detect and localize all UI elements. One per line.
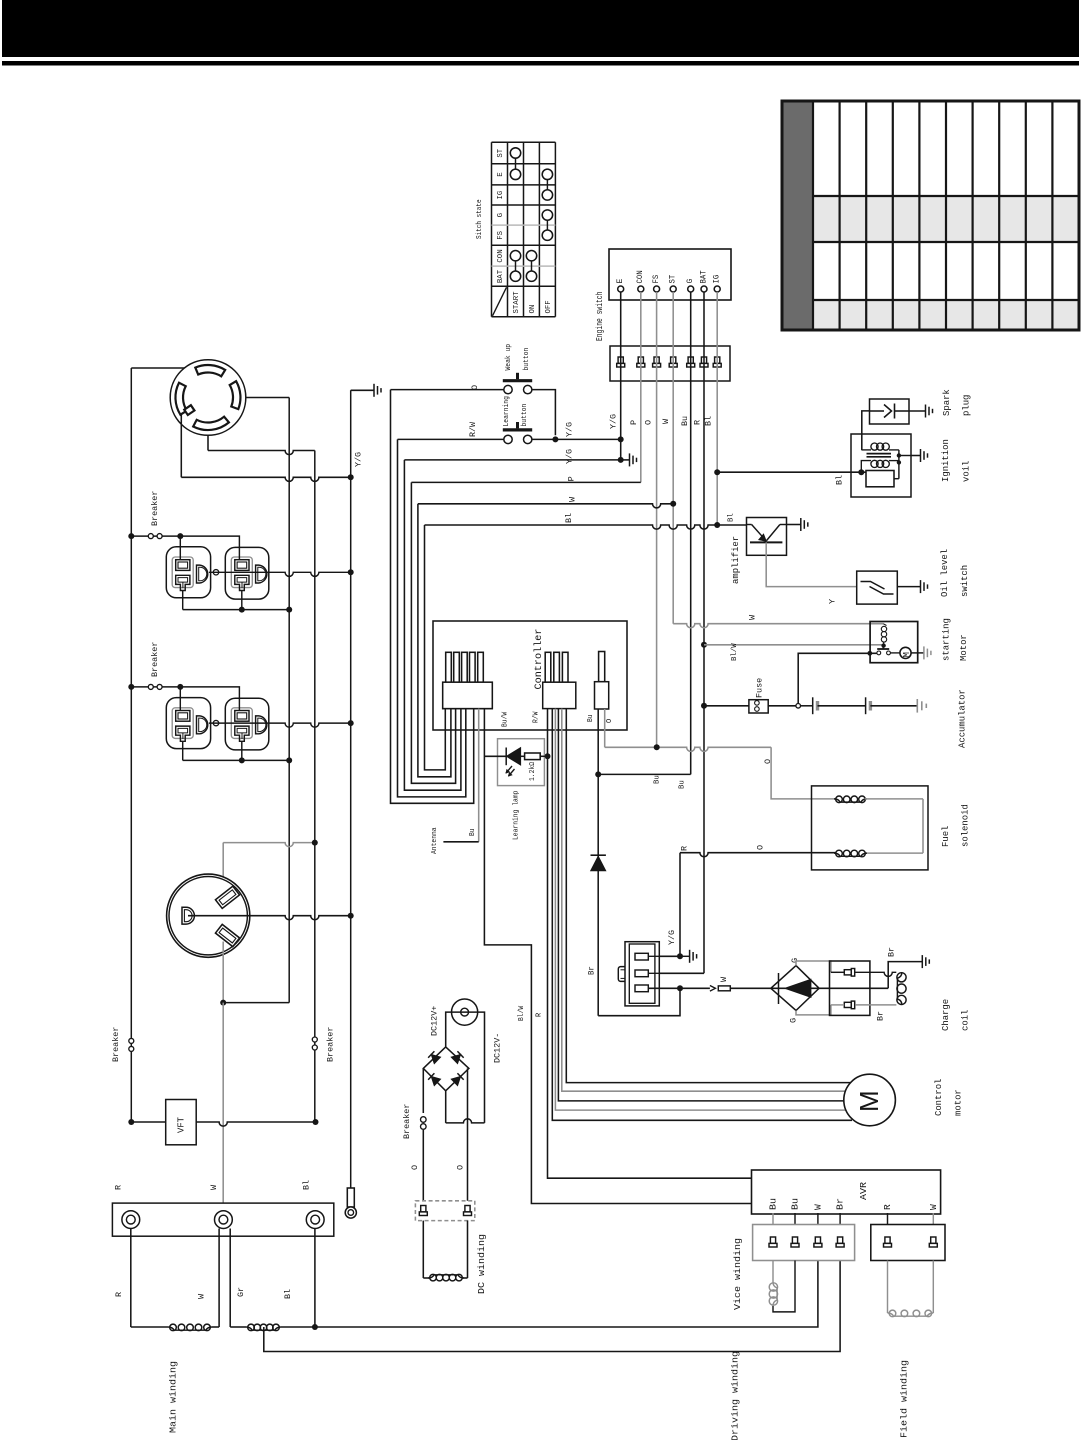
wire control motor lead 4	[562, 709, 852, 1092]
svg-text:FS: FS	[497, 231, 505, 240]
table contact START: ST-E	[510, 148, 520, 158]
wire controller loop 3	[404, 460, 461, 790]
svg-text:Bl: Bl	[302, 1180, 312, 1190]
twist-lock slot bottom	[193, 417, 229, 430]
engine switch terminal ST	[670, 286, 676, 292]
svg-text:START: START	[513, 291, 521, 313]
svg-text:O: O	[470, 385, 480, 390]
svg-text:BAT: BAT	[699, 270, 708, 283]
wire bridge minus link	[445, 1091, 447, 1123]
wire Y/G pin1 ground	[679, 853, 681, 957]
connector pin BAT	[701, 357, 706, 363]
wire G bottom to connector	[796, 1005, 831, 1015]
wire Y/G ground line to nest	[404, 459, 620, 461]
junction E ground	[618, 457, 624, 463]
wire W line to nest	[418, 504, 673, 508]
bridge diode bottom-left	[428, 1073, 440, 1085]
svg-text:solenoid: solenoid	[961, 804, 971, 847]
fuel solenoid coil upper	[834, 799, 867, 802]
wire G top to connector	[796, 961, 831, 972]
duplex outlet body	[166, 547, 210, 598]
main winding L1	[131, 1326, 168, 1328]
svg-text:button: button	[523, 348, 531, 371]
wire Bu controller to diode	[597, 709, 599, 1016]
wire R bus left	[130, 368, 132, 1122]
svg-text:P: P	[629, 420, 639, 425]
learning button	[503, 428, 532, 431]
wire controller loop 1	[391, 390, 474, 804]
svg-text:OFF: OFF	[545, 300, 553, 313]
svg-text:Y: Y	[827, 599, 837, 604]
receptacle face	[172, 708, 193, 739]
ignition coil primary block	[866, 471, 894, 487]
connector pin G	[688, 357, 693, 363]
wire controller loop 2	[398, 439, 466, 797]
wire control motor lead 1	[552, 709, 852, 1121]
controller connector J1	[443, 682, 493, 708]
oil level switch contact	[861, 582, 885, 590]
engine switch terminal BAT	[701, 286, 707, 292]
revision table	[813, 196, 1079, 242]
learning lamp box	[498, 739, 545, 786]
30A slot top	[215, 886, 239, 908]
svg-text:R: R	[882, 1204, 893, 1210]
ring terminal	[306, 1211, 324, 1229]
fuel solenoid coil lower	[865, 852, 923, 854]
connector pin	[838, 1237, 843, 1243]
receptacle face	[231, 557, 252, 588]
accumulator battery	[801, 705, 813, 707]
wire Br to ground	[888, 962, 922, 989]
duplex ground wire	[209, 572, 351, 576]
table contact ON: CON-BAT	[526, 251, 536, 261]
svg-text:Y/G: Y/G	[565, 449, 575, 464]
svg-text:plug: plug	[961, 395, 971, 416]
wire Bl bus from bottom slot	[314, 451, 316, 1123]
wire W to main winding	[218, 1229, 220, 1328]
svg-text:Br: Br	[876, 1011, 886, 1021]
svg-text:O: O	[606, 719, 614, 723]
junction R fuse	[701, 703, 707, 709]
30A ground wire to Y/G bus	[188, 916, 351, 920]
charge rectifier diamond	[771, 966, 819, 1011]
svg-text:Y/G: Y/G	[565, 422, 575, 437]
controller U1 box	[433, 621, 627, 730]
svg-text:AVR: AVR	[858, 1182, 869, 1200]
wire bridge AC right	[467, 1068, 469, 1200]
svg-text:R: R	[114, 1292, 124, 1297]
svg-text:Control: Control	[934, 1079, 944, 1116]
junction Bu wire	[595, 771, 601, 777]
wire R-O to fuel solenoid lower	[680, 853, 836, 857]
svg-text:Bu: Bu	[653, 775, 661, 784]
ring terminal	[215, 1211, 233, 1229]
svg-text:Learning lamp: Learning lamp	[513, 791, 521, 840]
svg-text:R: R	[692, 420, 702, 425]
engine switch connector	[610, 346, 730, 381]
fuse F1	[704, 705, 749, 707]
svg-text:starting: starting	[942, 618, 952, 661]
vice winding connector	[753, 1225, 855, 1261]
connector pin	[770, 1237, 775, 1243]
table contact OFF: E-IG	[542, 169, 552, 179]
svg-text:Oil level: Oil level	[940, 549, 950, 597]
twist-lock slot left	[175, 383, 186, 415]
svg-text:Breaker: Breaker	[326, 1027, 336, 1062]
breaker CB3	[129, 1038, 134, 1043]
wire twist-lock right slot	[246, 397, 289, 399]
learning lamp LED	[505, 748, 507, 766]
svg-text:Bu: Bu	[587, 714, 595, 722]
svg-text:Bu: Bu	[790, 1198, 801, 1210]
duplex neutral wires	[182, 741, 184, 760]
bridge diode bottom-right	[451, 1073, 463, 1085]
svg-text:G: G	[788, 1018, 798, 1023]
svg-text:voil: voil	[961, 461, 971, 482]
wire bridge AC left	[422, 1068, 424, 1200]
svg-text:Bl: Bl	[834, 475, 844, 485]
wire antenna lead	[478, 709, 480, 842]
engine switch terminal G	[688, 286, 694, 292]
30A outlet	[167, 874, 250, 957]
svg-text:Fuel: Fuel	[941, 826, 951, 847]
wire charge coil bottom	[831, 1004, 844, 1006]
wire Y/G from E pin	[620, 292, 622, 460]
svg-text:O: O	[455, 1165, 465, 1170]
breaker CB2	[131, 686, 180, 688]
engine switch terminal CON	[638, 286, 644, 292]
bridge diode top-left	[428, 1051, 440, 1063]
wire R/W controller to AVR	[548, 709, 752, 1179]
svg-text:1.2kΩ: 1.2kΩ	[529, 762, 537, 781]
svg-text:Driving winding: Driving winding	[729, 1351, 740, 1440]
title bar	[2, 0, 1079, 57]
controller connector J2	[545, 652, 551, 682]
wire winding to vice connector W pin	[315, 1261, 818, 1328]
ground at Y/G bus	[351, 389, 374, 391]
wire Bl/W controller pin down	[484, 709, 751, 1204]
svg-text:Bu: Bu	[679, 780, 687, 789]
wire DC12V+ to bridge	[446, 1012, 452, 1047]
wire DC12V- down	[478, 1012, 484, 1123]
connector pin IG	[715, 357, 720, 363]
wire W pin3	[648, 987, 710, 989]
starting motor plunger	[882, 646, 884, 649]
starting motor contacts	[877, 651, 881, 655]
wire Bl to ignition coil	[717, 471, 866, 473]
breaker CB5 DC	[420, 1113, 427, 1130]
Y/G ring lug	[347, 1188, 354, 1207]
svg-text:Breaker: Breaker	[402, 1104, 412, 1139]
svg-text:Antenna: Antenna	[431, 827, 439, 854]
duplex ground wire	[209, 723, 351, 727]
ground at E wire	[621, 459, 630, 461]
3-pin connector CN1	[625, 942, 659, 1006]
wire controller loop 5	[418, 504, 451, 777]
30A neutral wire	[222, 942, 224, 1003]
connector pin E	[618, 357, 623, 363]
AVR box	[752, 1170, 941, 1214]
svg-text:W: W	[209, 1184, 219, 1190]
svg-text:DC winding: DC winding	[476, 1234, 487, 1294]
terminal block	[112, 1203, 333, 1236]
wire control motor lead 5	[566, 709, 852, 1083]
switch state table header diagonal	[493, 287, 507, 316]
svg-text:IG: IG	[713, 275, 722, 284]
svg-text:switch: switch	[960, 565, 970, 597]
svg-text:Bu/W: Bu/W	[502, 711, 510, 727]
wire P line to nest	[411, 481, 640, 483]
svg-text:CON: CON	[497, 249, 505, 262]
table contact START: CON-BAT	[510, 251, 520, 261]
twist-lock outlet	[170, 360, 246, 436]
wire Br diode to W junction	[598, 988, 680, 1015]
svg-text:Y/G: Y/G	[353, 452, 363, 467]
svg-text:Controller: Controller	[533, 629, 545, 690]
junction E/buttons	[618, 436, 624, 442]
bullet connector	[710, 986, 716, 992]
antenna stub	[443, 841, 478, 843]
svg-text:G: G	[497, 212, 505, 217]
starting motor M	[890, 652, 900, 654]
junction Bl amplifier line	[714, 522, 720, 528]
svg-text:W: W	[719, 976, 729, 982]
svg-text:E: E	[497, 172, 505, 177]
engine switch terminal IG	[714, 286, 720, 292]
receptacle face	[231, 708, 252, 739]
junction ground bus top	[348, 474, 354, 480]
wire W bus to 30A neutral	[223, 1002, 289, 1004]
wire ignition to spark plug	[862, 411, 870, 450]
driving winding L2	[230, 1326, 246, 1328]
wire W to starting motor	[673, 624, 883, 628]
svg-text:Bu: Bu	[768, 1198, 779, 1210]
svg-text:Motor: Motor	[959, 634, 969, 661]
breaker CB4	[312, 1037, 317, 1042]
bridge diode top-right	[451, 1051, 463, 1063]
wire W bus from right slot	[288, 398, 290, 1003]
svg-text:Accumulator: Accumulator	[958, 689, 968, 748]
svg-text:Bl: Bl	[283, 1289, 293, 1299]
ground amplifier	[787, 524, 801, 526]
wire Bl/W fuse to contacts	[798, 653, 877, 703]
30A ground hole	[182, 907, 194, 924]
svg-text:G: G	[686, 279, 695, 284]
DC winding L3	[428, 1275, 464, 1278]
wire twist-lock left slot to ground bus	[180, 415, 182, 477]
svg-text:M: M	[854, 1090, 884, 1112]
connector pin ST	[671, 357, 676, 363]
wire control motor lead 2	[555, 709, 852, 1111]
svg-text:Fuse: Fuse	[754, 678, 764, 698]
charge rectifier diode	[778, 973, 780, 1004]
wire Gr to drive winding	[229, 1229, 231, 1328]
engine switch terminal E	[618, 286, 624, 292]
spark plug symbol	[870, 410, 885, 412]
engine switch terminal FS	[654, 286, 660, 292]
svg-text:Spark: Spark	[942, 389, 952, 416]
svg-text:Bl: Bl	[703, 416, 713, 426]
svg-text:W: W	[928, 1204, 939, 1210]
junction winding output	[312, 1324, 318, 1330]
svg-text:Br: Br	[835, 1198, 846, 1210]
svg-text:M: M	[902, 652, 912, 657]
spark plug box	[870, 399, 910, 424]
svg-text:Breaker: Breaker	[150, 642, 160, 677]
svg-text:R/W: R/W	[468, 421, 478, 437]
30A outlet hot wire	[222, 843, 224, 891]
svg-text:Weak up: Weak up	[505, 344, 513, 371]
ground oil level switch	[897, 586, 920, 588]
svg-text:R: R	[114, 1185, 124, 1190]
svg-text:R: R	[679, 846, 689, 851]
wire Y/G learning button to E wire	[532, 438, 621, 440]
svg-text:Br: Br	[886, 947, 896, 957]
svg-text:R/W: R/W	[533, 711, 541, 723]
connector pin	[815, 1237, 820, 1243]
charge connector CN2	[830, 961, 870, 1015]
svg-text:Main winding: Main winding	[167, 1361, 178, 1433]
svg-text:FS: FS	[652, 275, 661, 284]
svg-text:Bl: Bl	[728, 513, 736, 522]
wire motor to ground	[911, 652, 924, 654]
svg-text:Breaker: Breaker	[150, 491, 160, 526]
svg-text:Bu: Bu	[680, 416, 690, 426]
duplex hot wires	[179, 687, 181, 711]
vice winding L4	[772, 1261, 774, 1283]
wire Y/G ground bus	[350, 390, 352, 1190]
ground spark plug	[909, 410, 926, 412]
svg-text:W: W	[747, 614, 757, 620]
svg-text:Ignition: Ignition	[941, 439, 951, 482]
field winding L5	[887, 1261, 889, 1314]
junction Bl ignition coil	[714, 469, 720, 475]
svg-text:VFT: VFT	[177, 1116, 187, 1133]
wire controller loop 6	[425, 525, 446, 770]
svg-text:ST: ST	[669, 275, 678, 284]
wire Bu from G pin	[690, 292, 692, 774]
svg-text:Learning: Learning	[503, 396, 511, 426]
engine switch box	[609, 249, 731, 300]
svg-text:Bl/W: Bl/W	[518, 1005, 526, 1021]
control motor	[844, 1074, 896, 1126]
wire Bl bus to winding	[314, 1229, 316, 1328]
junction W controller tap	[670, 501, 676, 507]
junction learning lamp R/W	[545, 753, 551, 759]
weak up button	[503, 379, 532, 382]
ring terminal	[122, 1211, 140, 1229]
svg-text:Breaker: Breaker	[111, 1027, 121, 1062]
charge coil L6	[897, 972, 902, 1005]
svg-text:button: button	[521, 404, 529, 427]
switch state table	[491, 142, 493, 317]
wire amplifier to oil switch	[766, 542, 857, 586]
duplex hot wires	[179, 536, 181, 560]
breaker CB1	[131, 535, 180, 537]
duplex neutral wires	[182, 591, 184, 610]
connector pin	[792, 1237, 797, 1243]
svg-text:E: E	[616, 279, 625, 284]
wire twist-lock bottom slot	[207, 435, 209, 450]
svg-text:W: W	[661, 418, 671, 424]
wire Bu from G to diode wire	[598, 773, 691, 775]
wire fuse to battery	[768, 705, 796, 707]
svg-text:DC12V+: DC12V+	[429, 1006, 439, 1036]
junction 30A hot Bl bus	[312, 840, 318, 846]
amplifier transistor Q1	[747, 524, 752, 526]
wire to DC winding right	[467, 1221, 469, 1278]
ground ignition coil	[911, 455, 921, 457]
svg-text:W: W	[813, 1204, 824, 1210]
wire P from CON pin	[640, 292, 642, 482]
wire R from BAT pin	[703, 292, 705, 973]
svg-text:Bu: Bu	[469, 828, 477, 836]
wire R to starting motor	[704, 644, 883, 646]
controller connector J3	[599, 652, 605, 682]
ignition coil right leads	[898, 450, 900, 479]
wire W from ST pin	[672, 292, 674, 624]
title rule	[2, 61, 1079, 66]
svg-text:O: O	[755, 845, 765, 850]
connector pin FS	[654, 357, 659, 363]
twist-lock slot right	[230, 381, 241, 409]
VFT	[131, 1122, 315, 1126]
starting motor box	[870, 622, 918, 663]
junction O FS wire	[654, 744, 660, 750]
receptacle face	[172, 557, 193, 588]
ignition coil transformer	[867, 453, 892, 455]
wire W bus down to terminal	[222, 1003, 224, 1211]
svg-text:Br: Br	[587, 966, 596, 975]
wire to DC winding left	[422, 1221, 424, 1278]
lamp resistor 1.2k	[521, 755, 525, 757]
svg-text:CON: CON	[636, 270, 645, 283]
ground charge Br	[921, 955, 923, 968]
bridge rectifier BR1	[423, 1047, 469, 1091]
svg-text:Sitch state: Sitch state	[476, 199, 484, 239]
svg-text:motor: motor	[953, 1089, 963, 1116]
fuel solenoid box	[812, 786, 929, 870]
svg-text:O: O	[410, 1165, 420, 1170]
ignition coil box	[851, 434, 911, 497]
svg-text:IG: IG	[497, 190, 505, 199]
svg-text:Engine switch: Engine switch	[595, 292, 605, 341]
svg-text:O: O	[644, 420, 654, 425]
svg-text:Vice winding: Vice winding	[732, 1238, 743, 1310]
svg-text:ON: ON	[529, 305, 537, 314]
winding tap to Br pin	[264, 1261, 840, 1352]
svg-text:ST: ST	[497, 148, 505, 157]
svg-text:Bl/W: Bl/W	[731, 643, 739, 661]
pin leads	[648, 955, 659, 957]
svg-text:Field winding: Field winding	[898, 1360, 909, 1438]
twist-lock slot top	[195, 365, 225, 376]
svg-text:Charge: Charge	[941, 999, 951, 1031]
connector pin CON	[638, 357, 643, 363]
wire O controller to fuel solenoid	[604, 709, 606, 747]
starting motor solenoid coil	[883, 624, 886, 626]
30A slot bottom	[215, 924, 239, 946]
svg-text:amplifier: amplifier	[731, 536, 741, 584]
wire weak button to Y/G junction	[532, 390, 556, 436]
svg-text:BAT: BAT	[497, 269, 505, 283]
duplex outlet body	[166, 698, 210, 749]
junction ignition coil	[858, 469, 864, 475]
svg-text:Gr: Gr	[236, 1287, 246, 1297]
wire R to main winding	[130, 1229, 132, 1328]
svg-text:O: O	[763, 759, 773, 764]
diode D1	[591, 854, 606, 856]
